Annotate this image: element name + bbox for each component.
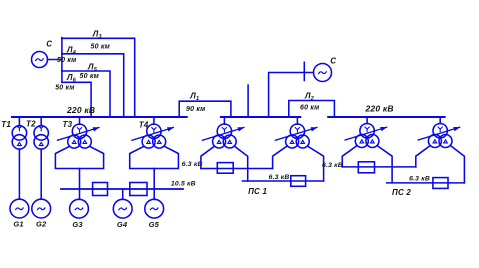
svg-text:6.3 кВ: 6.3 кВ bbox=[409, 175, 430, 182]
svg-text:C: C bbox=[330, 56, 336, 65]
line L1 bbox=[179, 101, 231, 116]
svg-text:C: C bbox=[46, 40, 52, 49]
svg-text:220 кВ: 220 кВ bbox=[66, 105, 95, 115]
bus 220kV section C bbox=[328, 116, 444, 118]
svg-text:Л2: Л2 bbox=[304, 91, 314, 102]
line L2 bbox=[289, 101, 335, 117]
bus PS1 6.3kV line1 bbox=[201, 168, 273, 170]
wire PS1 left MV winding down bbox=[201, 147, 214, 169]
wire G4 to bus bbox=[122, 189, 124, 199]
wire PS1 left LV winding down bbox=[235, 147, 248, 182]
wire T3 to generator bus bbox=[79, 169, 81, 200]
wire T2 to G2 bbox=[40, 149, 42, 199]
transformer T2 bbox=[34, 117, 48, 149]
svg-text:G5: G5 bbox=[149, 220, 160, 229]
arrow tap-changer PS2 left bbox=[345, 127, 387, 140]
arrow tap-changer T4 bbox=[132, 127, 174, 140]
transformer T1 bbox=[12, 117, 26, 149]
transformer PS1 left three-winding bbox=[213, 117, 237, 148]
arrow tap-changer T3 bbox=[58, 127, 100, 140]
wire T1 to G1 bbox=[18, 149, 20, 199]
svg-text:ПС 1: ПС 1 bbox=[248, 187, 267, 196]
svg-text:Т2: Т2 bbox=[26, 120, 36, 129]
svg-text:Л5: Л5 bbox=[87, 62, 98, 73]
wires T4 LV trapezoid bbox=[130, 147, 179, 169]
svg-text:Л4: Л4 bbox=[66, 45, 76, 56]
wire PS1 right LV winding down bbox=[308, 147, 323, 182]
svg-text:ПС 2: ПС 2 bbox=[392, 188, 411, 197]
bus 220kV section A bbox=[12, 116, 187, 118]
wire PS1 right MV winding down bbox=[273, 147, 287, 169]
svg-text:220 кВ: 220 кВ bbox=[365, 103, 394, 113]
transformer PS2 right three-winding bbox=[428, 117, 452, 148]
load PS2 line2 bbox=[433, 178, 448, 189]
reactor LR1 bbox=[93, 183, 108, 196]
bus 10.5kV generator bus bbox=[61, 188, 183, 190]
load PS1 line2 bbox=[291, 176, 306, 187]
stub node on bus B bbox=[247, 85, 249, 116]
load PS1 line1 bbox=[217, 163, 233, 174]
wire source C right to bus B bbox=[269, 73, 314, 117]
wire PS2 right LV winding down bbox=[451, 146, 464, 183]
generator G3 bbox=[70, 199, 89, 218]
svg-text:6.3 кВ: 6.3 кВ bbox=[182, 161, 203, 168]
svg-text:Л6: Л6 bbox=[66, 73, 77, 84]
wire PS2 right MV winding down bbox=[416, 146, 430, 167]
bus PS2 6.3kV line2 bbox=[387, 182, 465, 184]
wire PS2 left MV winding down bbox=[342, 146, 356, 167]
arrow tap-changer PS1 right bbox=[275, 127, 317, 140]
transformer PS2 left three-winding bbox=[355, 117, 379, 148]
svg-text:50 км: 50 км bbox=[91, 43, 111, 50]
transformer T3 three-winding bbox=[68, 117, 92, 148]
source C left bbox=[32, 52, 48, 68]
transformer PS1 right three-winding bbox=[286, 117, 310, 148]
svg-text:G1: G1 bbox=[13, 220, 23, 229]
line L4 bbox=[62, 54, 124, 117]
svg-text:G3: G3 bbox=[72, 220, 83, 229]
svg-text:Т1: Т1 bbox=[1, 120, 11, 129]
wires T3 LV trapezoid bbox=[55, 147, 103, 169]
generator G2 bbox=[32, 199, 51, 218]
svg-text:90 км: 90 км bbox=[186, 106, 206, 113]
wire trunk node lines L3-L6 bbox=[61, 38, 63, 83]
arrow tap-changer PS1 left bbox=[202, 127, 244, 140]
generator G1 bbox=[10, 199, 29, 218]
line L5 bbox=[62, 71, 110, 117]
svg-text:60 км: 60 км bbox=[300, 104, 320, 111]
svg-text:Т3: Т3 bbox=[63, 120, 73, 129]
tick on source C right lead bbox=[303, 62, 305, 80]
svg-text:10.5 кВ: 10.5 кВ bbox=[171, 181, 196, 188]
source C right bbox=[314, 64, 332, 82]
svg-text:6.3 кВ: 6.3 кВ bbox=[322, 162, 343, 169]
svg-text:Л3: Л3 bbox=[92, 30, 102, 41]
svg-text:50 км: 50 км bbox=[57, 57, 77, 64]
svg-text:50 км: 50 км bbox=[80, 73, 100, 80]
bus PS2 6.3kV line1 bbox=[342, 166, 416, 168]
svg-text:6.3 кВ: 6.3 кВ bbox=[269, 174, 290, 181]
arrow tap-changer PS2 right bbox=[418, 127, 460, 140]
line L3 bbox=[62, 38, 135, 116]
line L6 bbox=[62, 82, 91, 116]
generator G5 bbox=[145, 199, 164, 218]
wire T4 to generator bus bbox=[153, 169, 155, 200]
svg-text:50 км: 50 км bbox=[55, 84, 75, 91]
bus 220kV section B bbox=[221, 116, 300, 118]
wire PS2 left LV winding down bbox=[378, 146, 392, 183]
reactor LR2 bbox=[130, 183, 147, 196]
svg-text:G4: G4 bbox=[117, 220, 128, 229]
generator G4 bbox=[113, 199, 132, 218]
wire source C left to trunk bbox=[48, 59, 62, 61]
svg-text:G2: G2 bbox=[36, 220, 47, 229]
svg-text:Л1: Л1 bbox=[189, 92, 199, 103]
transformer T4 three-winding bbox=[142, 117, 166, 148]
load PS2 line1 bbox=[358, 162, 374, 173]
bus PS1 6.3kV line2 bbox=[243, 180, 324, 182]
